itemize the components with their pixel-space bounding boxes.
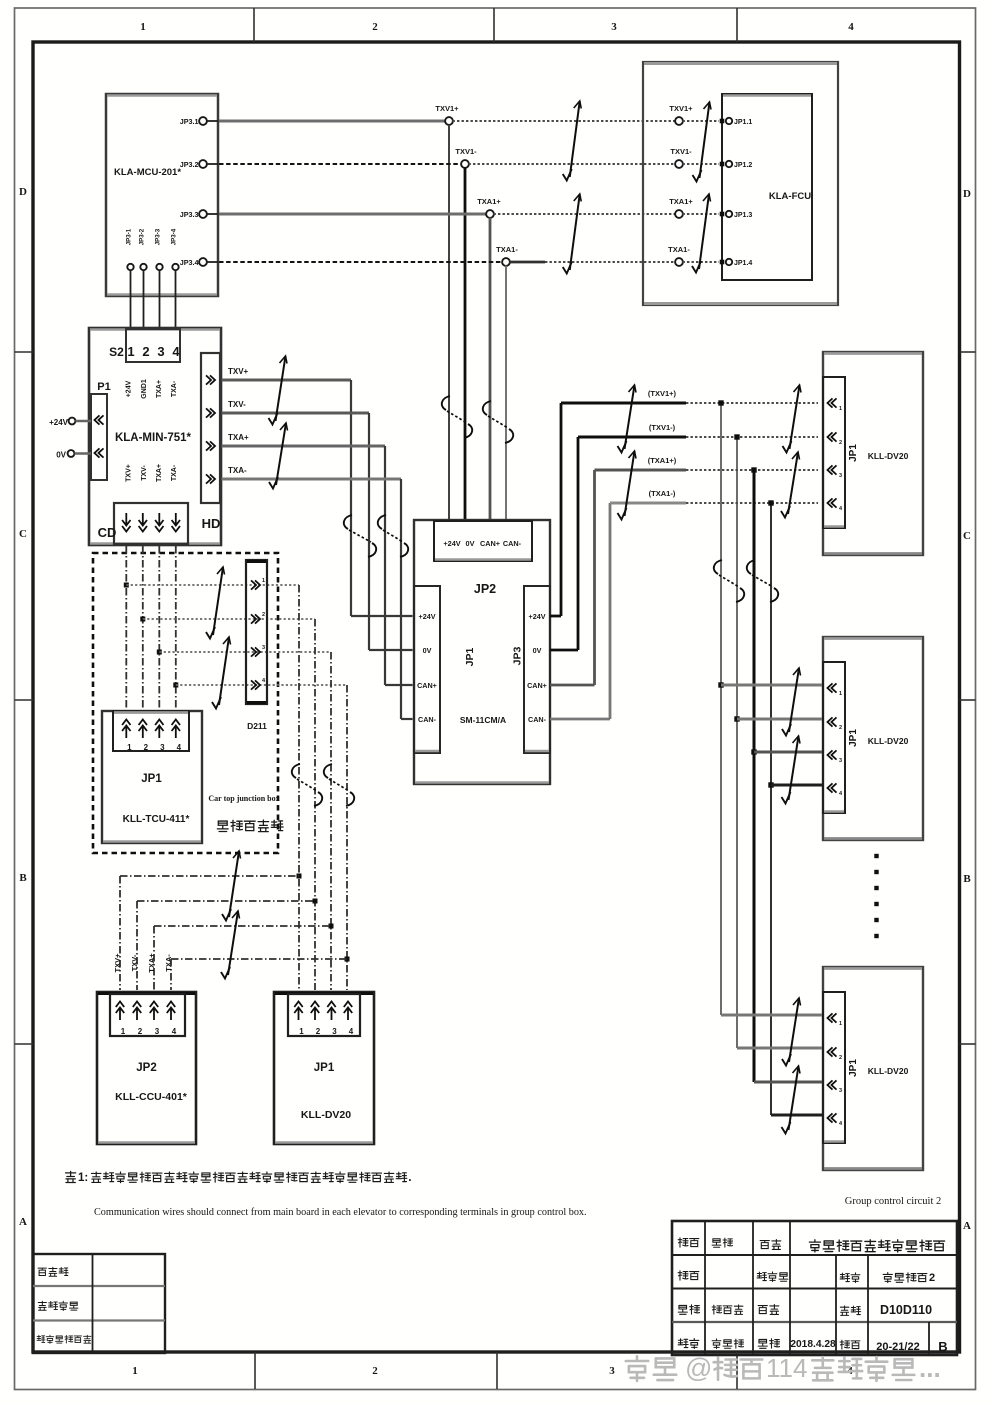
cable break on drops 1-2: [292, 764, 322, 806]
connector JP3.4 pin: [180, 258, 218, 267]
connector JP3.1 pin: [180, 117, 218, 126]
svg-text:KLL-DV20: KLL-DV20: [868, 736, 909, 746]
svg-text:CAN+: CAN+: [527, 681, 547, 690]
wire MCU pins to S2 header: [131, 271, 176, 330]
svg-text:1: 1: [839, 1021, 842, 1027]
cable break on TXA1 drops: [483, 401, 513, 443]
wire tap to DV20 #2 pin3: [754, 751, 822, 754]
svg-text:JP1.3: JP1.3: [734, 212, 752, 219]
FCU pin JP1.4: [720, 259, 753, 267]
wire JP3 CAN+ riser to (TXA1+) bus: [550, 470, 595, 685]
svg-text:JP3-3: JP3-3: [155, 228, 162, 245]
svg-text:KLA-MCU-201*: KLA-MCU-201*: [114, 167, 181, 178]
zone dividers bottom: [255, 1352, 737, 1389]
svg-text:4: 4: [848, 21, 854, 33]
svg-text:CAN+: CAN+: [417, 681, 437, 690]
twisted-pair mark at FCU TXV1 pair: [693, 102, 712, 182]
svg-text:TXV+: TXV+: [113, 953, 122, 973]
bus drop wire TXV1+ column: [720, 403, 722, 1015]
FCU terminal TXA1-: [668, 245, 719, 266]
connector JP1 header of bottom DV20 pins 1-4: [288, 994, 360, 1036]
svg-text:1: 1: [132, 1365, 138, 1377]
svg-text:20-21/22: 20-21/22: [876, 1341, 919, 1353]
svg-text:JP1.4: JP1.4: [734, 260, 752, 267]
svg-text:JP1: JP1: [848, 729, 859, 747]
svg-text:1: 1: [262, 578, 265, 584]
title cell craft 工艺 标准化: [678, 1271, 788, 1282]
svg-text:TXV-: TXV-: [141, 465, 148, 481]
svg-text:TXA1+: TXA1+: [477, 197, 501, 206]
svg-text:JP1: JP1: [848, 1059, 859, 1077]
svg-text:B: B: [19, 872, 27, 884]
title cell drawing no 图号 D10D110: [840, 1303, 932, 1317]
twisted-pair mark at DV20 #3 TXA pair: [782, 1066, 801, 1134]
connector D211: [246, 560, 267, 731]
FCU pin JP1.2: [720, 161, 753, 169]
svg-text:JP1: JP1: [314, 1062, 335, 1074]
label Car top junction box: [208, 794, 279, 803]
wire to D211 pin3: [159, 651, 331, 653]
svg-text:JP1.2: JP1.2: [734, 162, 752, 169]
svg-text:JP3.3: JP3.3: [180, 210, 199, 219]
svg-text:JP1.1: JP1.1: [734, 119, 752, 126]
svg-text:3: 3: [157, 344, 164, 359]
svg-text:JP2: JP2: [474, 582, 496, 596]
wire tap to DV20 #3 pin3: [754, 1081, 822, 1084]
svg-text:TXV-: TXV-: [228, 400, 246, 409]
connector JP3.2 pin: [180, 160, 218, 169]
svg-text:TXV+: TXV+: [126, 464, 133, 482]
bus wire (TXV1+): [561, 389, 818, 403]
svg-text:(TXA1+): (TXA1+): [648, 456, 677, 465]
svg-text:2: 2: [262, 612, 265, 618]
svg-text:1: 1: [299, 1027, 304, 1036]
svg-text:2: 2: [372, 21, 378, 33]
bus wire (TXA1-): [610, 489, 818, 503]
wire TXV1+ (JP3.1 to KLA-FCU JP1.1) with node and drop to JP2: [219, 104, 675, 520]
wire TXA1- (JP3.4 to KLA-FCU JP1.4) with node and drop: [219, 245, 675, 520]
wire CD pins down into junction box (dash-dot): [126, 546, 176, 712]
wire TXA- (HD to SM JP1 CAN-): [222, 466, 413, 719]
S2 rotated net labels +24V GND1 TXA+ TXA-: [126, 379, 179, 399]
svg-text:JP3-4: JP3-4: [171, 228, 178, 245]
svg-text:3: 3: [155, 1027, 160, 1036]
title cell design 设计 王峰: [678, 1238, 732, 1247]
svg-text:1: 1: [839, 406, 842, 412]
svg-text:B: B: [963, 873, 971, 885]
wire drop D211-2: [314, 619, 316, 990]
svg-text:Car top junction box: Car top junction box: [208, 794, 279, 803]
zone dividers right: [960, 352, 976, 1044]
svg-text:JP2: JP2: [136, 1062, 156, 1074]
wire drop D211-4: [346, 685, 348, 990]
svg-text:0V: 0V: [423, 646, 432, 655]
svg-text:D211: D211: [247, 721, 267, 731]
bus wire (TXV1-): [578, 423, 818, 437]
svg-text:TXA+: TXA+: [156, 380, 163, 398]
title cell unit 单位 康力电梯股份有限公司: [760, 1240, 944, 1252]
module KLL-DV20 #3 box: [823, 967, 923, 1170]
svg-text:2: 2: [839, 1055, 842, 1061]
svg-text:+24V: +24V: [419, 612, 436, 621]
junction dots on car-top verticals: [124, 583, 179, 688]
label (Chinese) car top junction box: [217, 820, 283, 832]
FCU pin JP1.3: [720, 211, 753, 219]
zone numbers bottom: [132, 1365, 853, 1377]
twisted-pair mark on TXA pair: [269, 423, 288, 489]
svg-text:A: A: [19, 1216, 27, 1228]
module KLL-DV20 #1 box: [823, 352, 923, 555]
svg-text:TXA-: TXA-: [171, 464, 178, 481]
ellipsis continuation dots: [874, 854, 878, 938]
svg-text:KLL-CCU-401*: KLL-CCU-401*: [115, 1091, 188, 1103]
svg-text:CAN-: CAN-: [418, 715, 437, 724]
svg-text:4: 4: [172, 344, 180, 359]
cable break on TXV1 drops: [442, 396, 472, 438]
FCU terminal TXV1+: [669, 104, 719, 125]
svg-text:TXA+: TXA+: [228, 433, 249, 442]
svg-text:0V: 0V: [56, 451, 66, 460]
svg-text:114: 114: [766, 1353, 807, 1383]
wire bottom net 2 to CCU pin2: [137, 901, 315, 990]
controller U4 SM-11CM/A main box: [414, 520, 550, 784]
svg-text:2: 2: [839, 440, 842, 446]
twisted-pair mark on (TXA1) bus pair: [618, 451, 637, 520]
wire to D211 pin2: [143, 618, 315, 620]
svg-text:D10D110: D10D110: [880, 1303, 932, 1317]
board U3 KLA-MIN-751* main box: [89, 328, 221, 545]
connector HD: [201, 353, 220, 531]
svg-text:SM-11CM/A: SM-11CM/A: [460, 715, 506, 725]
svg-text:TXA1+: TXA1+: [669, 197, 693, 206]
svg-text:+24V: +24V: [49, 418, 69, 427]
module U2 KLA-FCU outer box: [643, 62, 838, 305]
svg-text:JP1: JP1: [464, 648, 476, 667]
svg-text:TXA+: TXA+: [147, 953, 156, 973]
svg-text:2: 2: [144, 743, 149, 752]
svg-text:@: @: [685, 1353, 712, 1383]
cable break on TXV1 bus drops: [714, 560, 744, 602]
zone letters right: [963, 188, 971, 1232]
FCU pin JP1.1: [720, 118, 753, 126]
zone dividers top: [254, 8, 737, 42]
wire bottom net 4 to CCU pin4: [171, 959, 347, 990]
svg-text:3: 3: [839, 473, 842, 479]
svg-text:+24V: +24V: [126, 380, 133, 397]
FCU terminal TXA1+: [669, 197, 719, 218]
svg-text:TXV-: TXV-: [130, 954, 139, 971]
svg-text:1: 1: [839, 691, 842, 697]
svg-text:2: 2: [929, 1272, 935, 1284]
wire TXA+ (HD to SM JP1 CAN+): [222, 433, 413, 685]
svg-text:KLL-TCU-411*: KLL-TCU-411*: [123, 814, 190, 825]
svg-text:4: 4: [172, 1027, 177, 1036]
wire JP3 0V riser to (TXV1-) bus: [550, 437, 578, 650]
svg-text:CAN-: CAN-: [503, 539, 522, 548]
wire to D211 pin1: [126, 584, 299, 586]
connector JP2 header (+24V 0V CAN+ CAN-): [434, 521, 532, 561]
twisted-pair mark at FCU TXA1 pair: [692, 194, 711, 273]
svg-text:JP3.4: JP3.4: [180, 258, 199, 267]
svg-text:Communication wires should con: Communication wires should connect from …: [94, 1207, 587, 1218]
twisted-pair mark at DV20 #1 TXV pair: [783, 385, 802, 453]
wire TXA1+ (JP3.3 to KLA-FCU JP1.3) with node and drop: [219, 197, 675, 520]
title cell page 页号 20-21/22 B: [840, 1339, 948, 1354]
twisted-pair mark on junction box pair 1-2: [206, 567, 225, 639]
svg-text:2: 2: [138, 1027, 143, 1036]
svg-text:D: D: [963, 188, 971, 200]
bus wire (TXA1+): [595, 456, 819, 470]
module KLL-DV20 #2 box: [823, 637, 923, 840]
caption Group control circuit 2: [845, 1196, 942, 1207]
svg-text:0V: 0V: [466, 539, 475, 548]
twisted-pair mark on TXV1 pair mid: [563, 101, 582, 181]
connector JP3 column of SM-11CM/A: [512, 586, 551, 753]
svg-text:2: 2: [142, 344, 149, 359]
twisted-pair mark on junction box pair 3-4: [212, 637, 231, 709]
wire TXV+ (HD to SM JP1 +24V): [222, 367, 413, 616]
svg-text:KLA-MIN-751*: KLA-MIN-751*: [115, 432, 192, 444]
svg-text:JP3: JP3: [512, 647, 524, 666]
connector JP1 of KLL-DV20 #1: [823, 377, 859, 528]
svg-text:JP3-2: JP3-2: [139, 228, 146, 245]
svg-text:2: 2: [372, 1365, 378, 1377]
twisted-pair mark on TXV pair: [269, 356, 288, 425]
connector P1: [91, 381, 111, 480]
svg-text:1:: 1:: [78, 1172, 88, 1184]
svg-text:TXV1-: TXV1-: [670, 147, 692, 156]
CCU rotated labels TXV+ TXV- TXA+ TXA-: [113, 953, 173, 973]
cable break on drops 3-4: [324, 764, 354, 806]
FCU terminal TXV1-: [670, 147, 719, 168]
twisted-pair mark at DV20 #2 TXV pair: [782, 668, 801, 736]
wire JP3 +24V riser to (TXV1+) bus: [550, 403, 561, 616]
connector JP1 column of SM-11CM/A: [414, 586, 476, 753]
twisted-pair mark at DV20 #2 TXA pair: [782, 736, 801, 804]
svg-text:Group control circuit 2: Group control circuit 2: [845, 1196, 942, 1207]
svg-text:2018.4.28: 2018.4.28: [790, 1339, 836, 1350]
svg-text:A: A: [963, 1220, 971, 1232]
svg-text:TXA-: TXA-: [228, 466, 247, 475]
svg-text:1: 1: [140, 21, 146, 33]
title block table: [672, 1221, 957, 1355]
svg-text:.: .: [408, 1170, 411, 1184]
bus drop wire TXA1+ column: [753, 470, 756, 1082]
junction dots at second DV20 taps: [718, 682, 773, 787]
revision table: [33, 1254, 165, 1353]
wire bottom net 1 to CCU pin1: [120, 876, 299, 990]
svg-text:KLL-DV20: KLL-DV20: [868, 451, 909, 461]
svg-text:TXA+: TXA+: [156, 464, 163, 482]
MCU bottom pins with rotated labels JP3-1..JP3-4: [126, 228, 179, 270]
svg-text:TXA1-: TXA1-: [496, 245, 518, 254]
svg-text:TXV+: TXV+: [228, 367, 249, 376]
zone numbers top: [140, 21, 854, 33]
junction dots bottom row: [297, 874, 350, 962]
svg-text:C: C: [19, 528, 27, 540]
title cell drawing name 图名 群控电路2: [840, 1272, 935, 1284]
module U2 KLA-FCU inner box: [722, 94, 812, 280]
board KLL-DV20 bottom: [274, 992, 374, 1144]
svg-text:CD: CD: [98, 525, 117, 540]
connector S2 header pins 1-4: [109, 329, 180, 362]
svg-text:JP1: JP1: [848, 444, 859, 462]
connector CD: [98, 503, 188, 544]
svg-text:3: 3: [332, 1027, 337, 1036]
svg-text:0V: 0V: [533, 646, 542, 655]
svg-text:4: 4: [177, 743, 182, 752]
svg-text:3: 3: [262, 645, 265, 651]
wire drop D211-1 to bottom junction: [298, 585, 300, 990]
svg-text:TXA-: TXA-: [164, 954, 173, 972]
connector JP3.3 pin: [180, 210, 218, 219]
svg-text:(TXV1-): (TXV1-): [649, 423, 676, 432]
svg-text:GND1: GND1: [141, 379, 148, 399]
svg-text:3: 3: [839, 1088, 842, 1094]
board KLL-TCU-411*: [102, 711, 202, 843]
svg-text:1: 1: [127, 344, 134, 359]
junction box (car top, dashed): [93, 553, 278, 853]
cable break on TXA drops: [378, 515, 408, 557]
wire tap to DV20 #3 pin2: [737, 1047, 822, 1050]
svg-text:KLL-DV20: KLL-DV20: [301, 1109, 351, 1121]
twisted-pair mark on TXA1 pair mid: [563, 194, 582, 274]
note English: [94, 1207, 587, 1218]
svg-text:KLA-FCU: KLA-FCU: [769, 191, 811, 202]
twisted-pair mark on (TXV1) bus pair: [618, 385, 637, 453]
svg-text:C: C: [963, 530, 971, 542]
svg-text:+24V: +24V: [443, 539, 460, 548]
wire tap to DV20 #3 pin1: [721, 1014, 822, 1017]
title cell audit 审核 朱森峰 日期 2018.4.28: [678, 1339, 836, 1350]
svg-text:TXA-: TXA-: [171, 380, 178, 397]
svg-text:3: 3: [160, 743, 165, 752]
svg-text:JP3.1: JP3.1: [180, 117, 199, 126]
cable break on TXV drops: [344, 515, 376, 557]
revision row labels 修改人 / 修改时间 / 修改通知单号: [37, 1267, 91, 1343]
svg-text:P1: P1: [97, 381, 110, 393]
svg-text:KLL-DV20: KLL-DV20: [868, 1066, 909, 1076]
wire tap to DV20 #3 pin4: [771, 1114, 822, 1117]
controller U1 KLA-MCU-201*: [106, 94, 218, 296]
MIN-751 rotated labels TXV+ TXV- TXA+ TXA-: [126, 464, 179, 482]
wire bottom net 3 to CCU pin3: [154, 926, 331, 990]
svg-text:4: 4: [349, 1027, 354, 1036]
svg-text:JP3.2: JP3.2: [180, 160, 199, 169]
svg-text:3: 3: [611, 21, 617, 33]
wire TXV1- (JP3.2 to KLA-FCU JP1.2) with node and drop: [219, 147, 675, 520]
bus drop wire TXV1- column: [736, 437, 738, 1048]
svg-text:2: 2: [839, 725, 842, 731]
svg-text:3: 3: [609, 1365, 615, 1377]
note 1 Chinese: [66, 1170, 412, 1184]
svg-text:TXV1+: TXV1+: [435, 104, 459, 113]
twisted-pair mark bottom pair 1-2: [222, 851, 241, 921]
twisted-pair mark at DV20 #3 TXV pair: [782, 998, 801, 1066]
connector JP1 of KLL-DV20 #2: [823, 662, 859, 813]
title cell check 校对 孙佳秀 审定: [678, 1305, 779, 1315]
svg-text:CAN+: CAN+: [480, 539, 500, 548]
wire tap to DV20 #2 pin2: [737, 718, 822, 721]
cable break on TXA1 bus drops: [747, 560, 778, 602]
twisted-pair mark bottom pair 3-4: [221, 911, 240, 979]
svg-text:3: 3: [839, 758, 842, 764]
svg-text:1: 1: [127, 743, 132, 752]
svg-text:HD: HD: [202, 516, 221, 531]
svg-text:2: 2: [316, 1027, 321, 1036]
svg-text:(TXV1+): (TXV1+): [648, 389, 677, 398]
svg-text:1: 1: [121, 1027, 126, 1036]
board KLL-CCU-401*: [97, 992, 196, 1144]
svg-text:S2: S2: [109, 345, 124, 359]
wire tap to DV20 #2 pin4: [771, 784, 822, 787]
zone dividers left: [15, 352, 34, 1044]
svg-text:TXV1+: TXV1+: [669, 104, 693, 113]
svg-text:...: ...: [919, 1353, 941, 1383]
svg-text:+24V: +24V: [529, 612, 546, 621]
svg-text:B: B: [938, 1339, 947, 1354]
connector JP1 header of TCU pins 1-4: [113, 711, 189, 752]
wire drop D211-3: [330, 652, 332, 990]
bus drop wire TXA1- column: [770, 503, 772, 1115]
junction dots on bus lines: [718, 400, 773, 505]
svg-text:JP3-1: JP3-1: [126, 228, 133, 245]
svg-text:(TXA1-): (TXA1-): [649, 489, 676, 498]
wire to D211 pin4: [176, 684, 347, 686]
svg-text:CAN-: CAN-: [528, 715, 547, 724]
power terminal 0V: [56, 450, 91, 459]
svg-text:D: D: [19, 186, 27, 198]
zone letters left: [19, 186, 27, 1228]
svg-text:JP1: JP1: [141, 773, 162, 785]
wire tap to DV20 #2 pin1: [721, 684, 822, 687]
wire JP3 CAN- riser to (TXA1-) bus: [550, 503, 610, 719]
connector JP2 header of CCU pins 1-4: [110, 994, 185, 1036]
wire TXV- (HD to SM JP1 0V): [222, 400, 413, 650]
svg-text:TXV1-: TXV1-: [455, 147, 477, 156]
svg-text:TXA1-: TXA1-: [668, 245, 690, 254]
power terminal +24V: [49, 418, 91, 427]
connector JP1 of KLL-DV20 #3: [823, 992, 859, 1143]
watermark zhihu elevator114: [626, 1353, 941, 1383]
twisted-pair mark at DV20 #1 TXA pair: [781, 452, 800, 518]
